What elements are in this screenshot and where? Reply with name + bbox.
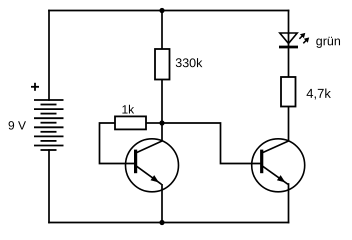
node top junction — [159, 8, 164, 13]
battery B1 9V plates — [34, 100, 64, 150]
wire T1 collector lead — [161, 123, 163, 142]
svg-text:330k: 330k — [175, 56, 203, 70]
resistor R2 1k — [115, 116, 146, 129]
transistor T1 circle — [126, 139, 179, 192]
transistor T2 collector line — [263, 141, 289, 153]
wire top rail — [49, 10, 289, 12]
transistor T1 emitter line — [137, 166, 162, 184]
resistor R1 330k — [155, 49, 170, 80]
svg-text:4,7k: 4,7k — [306, 86, 331, 101]
transistor T1 base bar — [134, 150, 137, 174]
label battery plus sign — [31, 83, 39, 91]
wire T1 emitter lead to bottom rail — [161, 184, 163, 223]
transistor T2 emitter arrowhead — [277, 176, 284, 182]
wire right rail top (to LED anode) — [288, 11, 290, 34]
transistor T2 base bar — [260, 150, 263, 174]
LED D1 wire through — [288, 33, 290, 77]
transistor T2 circle — [252, 139, 305, 192]
wire node to T2 base — [162, 123, 261, 164]
LED D1 triangle — [280, 33, 297, 44]
wire bottom rail — [49, 222, 289, 224]
node bottom junction — [159, 220, 164, 225]
LED D1 emission arrow 1 — [299, 33, 305, 39]
wire R3 bottom lead to T2 collector — [288, 107, 290, 142]
transistor T2 emitter line — [263, 166, 288, 184]
wire 330k bottom lead to node — [161, 80, 163, 124]
wire 1k right lead — [146, 122, 162, 124]
wire 1k left lead to T1 base — [100, 123, 135, 164]
svg-text:9 V: 9 V — [8, 119, 26, 133]
transistor T1 emitter arrowhead — [151, 176, 158, 182]
transistor T1 collector line — [137, 141, 163, 153]
svg-text:1k: 1k — [121, 103, 135, 117]
wire 330k top lead — [161, 11, 163, 50]
LED D1 cathode bar — [279, 46, 298, 49]
wire left rail lower (battery - lead) — [48, 150, 50, 223]
resistor R3 4,7k — [281, 77, 296, 107]
node base junction — [159, 120, 164, 125]
wire left rail upper (battery + lead) — [48, 11, 50, 101]
LED D1 emission arrow 2 — [303, 37, 309, 43]
svg-text:grün: grün — [316, 34, 341, 48]
wire T2 emitter lead to bottom rail — [288, 184, 290, 223]
